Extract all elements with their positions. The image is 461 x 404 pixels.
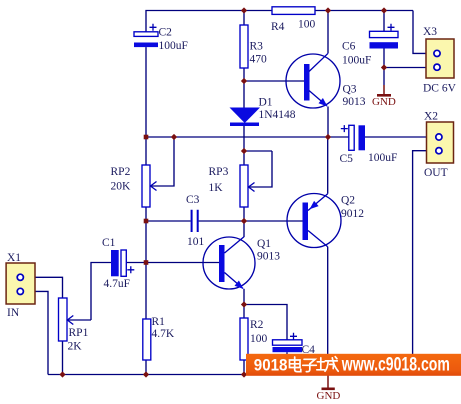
svg-text:www.c9018.com: www.c9018.com [341, 354, 450, 376]
node R1 bottom/rail [143, 371, 149, 377]
svg-text:R4: R4 [271, 21, 285, 33]
resistor R4 [271, 7, 316, 33]
svg-text:100uF: 100uF [342, 55, 371, 67]
node Q3 base/R3/D1 [241, 78, 247, 84]
capacitor C5 [340, 125, 398, 165]
svg-text:C2: C2 [159, 27, 173, 39]
wire C1 left lead from RP1 wiper riser [91, 263, 111, 321]
svg-text:C5: C5 [340, 153, 354, 165]
svg-text:9013: 9013 [343, 96, 366, 108]
wire Q3 emitter down to bus [327, 107, 329, 138]
svg-text:9013: 9013 [257, 251, 280, 263]
node R3/rail [241, 7, 247, 13]
wire C3 right lead [199, 220, 244, 222]
node C1/Q1 base/R1 [144, 260, 149, 265]
wire node to D1 anode [243, 81, 245, 108]
node bus/RP2 top [144, 135, 149, 140]
watermark banner [246, 354, 461, 376]
node R2 bottom/rail [241, 371, 247, 377]
wire middle bus y=137 [146, 136, 349, 138]
wire RP3 wiper loop [244, 151, 272, 187]
svg-text:C6: C6 [342, 41, 356, 53]
wire R1 top lead [145, 263, 147, 320]
wire R1 bottom lead [145, 360, 147, 375]
wire C4 top lead [244, 305, 287, 340]
svg-text:4.7uF: 4.7uF [104, 278, 131, 290]
wire C5 right to X2 pin1 [365, 136, 435, 138]
capacitor C4 [273, 333, 316, 356]
wire C6 top lead [383, 11, 385, 32]
resistor R3 [240, 25, 267, 68]
wire X1 pin2 down to ground rail [24, 291, 48, 374]
svg-text:100: 100 [250, 333, 268, 345]
svg-text:Q3: Q3 [343, 84, 357, 96]
wire Q2 base [244, 220, 303, 222]
svg-text:C1: C1 [102, 237, 116, 249]
wire R2 bottom lead [243, 360, 245, 375]
wire C1 right lead [126, 262, 146, 264]
svg-text:9018: 9018 [254, 356, 288, 375]
svg-text:100uF: 100uF [159, 40, 188, 52]
wire Q1 emitter down [243, 289, 245, 305]
wire X2 pin2 lead down to ground rail [413, 151, 436, 375]
transistor Q3 9013 [286, 53, 366, 108]
svg-text:R2: R2 [250, 319, 264, 331]
wire R3 bottom lead to node [243, 68, 245, 81]
wire Q2 collector down to ground rail [327, 247, 329, 375]
svg-text:GND: GND [372, 96, 396, 108]
svg-text:C3: C3 [186, 194, 200, 206]
transistor Q1 9013 [203, 237, 280, 289]
svg-text:OUT: OUT [424, 167, 448, 179]
svg-text:2K: 2K [68, 341, 83, 353]
capacitor C6 [342, 24, 398, 67]
svg-text:100uF: 100uF [368, 152, 397, 164]
wire RP2 top lead [145, 137, 147, 165]
wire C3 left lead [146, 220, 191, 222]
node C6/rail [381, 7, 387, 13]
svg-text:X2: X2 [424, 111, 438, 123]
wire Q1 base from C1 node [146, 262, 219, 264]
svg-text:GND: GND [317, 390, 341, 402]
wire C6 bottom lead [383, 49, 385, 86]
svg-text:101: 101 [187, 236, 205, 248]
node bus/Q3 emitter/C5 [325, 134, 331, 140]
potentiometer RP3 [209, 165, 255, 207]
wire X1 pin1 to RP1 top [24, 277, 63, 298]
svg-text:R3: R3 [250, 41, 264, 53]
svg-text:D1: D1 [259, 97, 273, 109]
svg-text:RP2: RP2 [111, 166, 131, 178]
connector X1 [6, 252, 35, 319]
wire X3 pin2 lead [384, 67, 433, 69]
wire Q1 collector [243, 221, 245, 237]
wire RP3 top lead [243, 151, 245, 165]
svg-text:DC 6V: DC 6V [423, 83, 457, 95]
wire RP1 bottom lead [62, 341, 64, 375]
wire X3 pin1 lead [413, 11, 433, 54]
resistor R2 [240, 318, 268, 360]
ground (bottom GND) [317, 375, 341, 403]
wire RP2 bottom lead to C1 node [145, 207, 147, 263]
wire Q2 emitter up to bus [327, 137, 329, 194]
wire C4 bottom lead [286, 352, 288, 374]
node RP1 bottom/rail [59, 371, 65, 377]
wire bottom ground rail [48, 374, 413, 376]
node bus/RP2 wiper [171, 134, 177, 140]
node Q3 collector/rail [325, 7, 331, 13]
capacitor C3 [186, 194, 205, 248]
wire Q3 base [244, 80, 304, 82]
connector X2 [424, 111, 454, 180]
svg-text:R1: R1 [152, 316, 166, 328]
svg-text:9012: 9012 [341, 208, 364, 220]
node C3 left/RP2 bottom [144, 219, 149, 224]
wire C2 bottom lead down to bus [145, 47, 147, 137]
capacitor C2 [134, 24, 188, 52]
svg-text:20K: 20K [111, 181, 132, 193]
node C3 right/Q2 base/Q1 collector [241, 218, 247, 224]
svg-text:RP3: RP3 [209, 166, 229, 178]
wire top rail left (C2 top to R4 left) [146, 11, 272, 32]
connector X3 [423, 26, 457, 95]
node A D1 cathode/RP3 [241, 148, 247, 154]
ground (power GND near X3) [372, 85, 396, 108]
transistor Q2 9012 [287, 194, 364, 248]
svg-text:Q1: Q1 [257, 238, 271, 250]
svg-text:1N4148: 1N4148 [259, 109, 296, 121]
svg-text:100: 100 [298, 19, 316, 31]
resistor R1 [143, 316, 175, 360]
wire R3 top lead [243, 11, 245, 26]
potentiometer RP2 [111, 165, 157, 207]
svg-text:IN: IN [7, 307, 20, 319]
wire top rail right (R4 right to corner above X3) [315, 10, 413, 12]
wire RP1 wiper lead [67, 319, 91, 321]
capacitor C1 [102, 237, 134, 290]
svg-text:X3: X3 [423, 26, 437, 38]
wire R2 top lead [243, 305, 245, 319]
node Q1 emitter/R2/C4 [241, 301, 247, 307]
svg-text:X1: X1 [7, 252, 21, 264]
wire RP2 wiper loop [151, 137, 175, 186]
svg-text:RP1: RP1 [69, 327, 89, 339]
node C6/X3 GND [381, 64, 387, 70]
svg-text:470: 470 [250, 54, 268, 66]
wire D1 cathode to node A [243, 126, 245, 151]
svg-text:Q2: Q2 [341, 195, 355, 207]
wire Q3 collector [327, 11, 329, 54]
diode D1 1N4148 [230, 97, 296, 127]
potentiometer RP1 [59, 298, 89, 353]
wire RP3 bottom lead [243, 207, 245, 221]
svg-text:1K: 1K [209, 182, 224, 194]
svg-text:4.7K: 4.7K [152, 328, 175, 340]
